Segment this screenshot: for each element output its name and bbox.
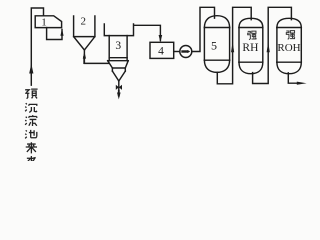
- svg-text:1: 1: [41, 17, 47, 29]
- svg-text:5: 5: [211, 39, 217, 53]
- svg-text:3: 3: [115, 40, 121, 52]
- svg-text:RH: RH: [242, 42, 258, 54]
- svg-text:4: 4: [158, 45, 164, 57]
- svg-text:2: 2: [80, 16, 86, 28]
- svg-text:ROH: ROH: [277, 42, 300, 54]
